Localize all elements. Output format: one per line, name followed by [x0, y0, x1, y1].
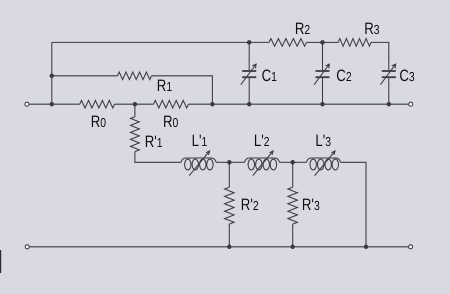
wire: node1 to L'2 [229, 161, 244, 163]
svg-text:L'2: L'2 [254, 132, 270, 150]
svg-text:R'3: R'3 [302, 196, 320, 214]
inductor L'3 (variable) [306, 158, 340, 162]
wire: top between C1 and R2 [249, 41, 269, 43]
resistor R3 [338, 39, 371, 47]
node C2 bottom [320, 102, 325, 107]
wire: R0 to node R'1 [115, 103, 135, 105]
svg-text:C2: C2 [336, 67, 351, 85]
svg-text:R2: R2 [295, 20, 310, 38]
node right corner bottom [364, 245, 369, 250]
wire: left vertical [51, 42, 53, 104]
wire: R3 to top-right corner, down to C3 [371, 42, 389, 58]
capacitor C3 (variable) [388, 57, 390, 70]
wire: R1 row left lead [52, 75, 118, 77]
node R1/left vertical [50, 74, 55, 79]
svg-text:R0: R0 [163, 113, 178, 131]
wire: second R0 to main line right [188, 103, 410, 105]
wire: bottom horizontal [27, 246, 410, 248]
terminal (bottom right) [409, 245, 413, 249]
svg-text:C1: C1 [262, 67, 277, 85]
wire: L'2 to node2 [280, 161, 293, 163]
resistor R'3 [292, 162, 294, 187]
wire: top horizontal [52, 41, 249, 43]
wire: node C2 to R3 [323, 41, 339, 43]
wire: L'3 to right corner down to bottom [341, 162, 366, 247]
wire: R2 to node C2 [307, 41, 323, 43]
wire: node2 to L'3 [293, 161, 307, 163]
capacitor C1 (variable) [248, 42, 250, 70]
node R1 right on main line [210, 102, 215, 107]
node R'1 top [133, 102, 138, 107]
capacitor C2 (variable) [322, 42, 324, 70]
node R'2 bottom [227, 245, 232, 250]
node C1 top [247, 40, 252, 45]
svg-text:R0: R0 [91, 113, 106, 131]
resistor R0 (second) [154, 100, 189, 108]
inductor L'1 (variable) [181, 158, 216, 162]
svg-text:C3: C3 [399, 67, 414, 85]
wire: R'1 bottom to inductor row [135, 152, 181, 163]
wire: input terminal to node [27, 103, 52, 105]
svg-text:R1: R1 [157, 77, 172, 95]
resistor R0 (first) [80, 100, 115, 108]
left-edge dark mark [0, 250, 1, 273]
node R'3 bottom [290, 245, 295, 250]
wire: node to R0 [52, 103, 80, 105]
wire: node R'1 to second R0 [135, 103, 154, 105]
node C1 bottom [247, 102, 252, 107]
svg-text:L'1: L'1 [192, 132, 208, 150]
node C3 bottom [387, 102, 392, 107]
node L'2-L'3 / R'3 top [290, 160, 295, 165]
resistor R1 [118, 72, 152, 80]
resistor R'1 top lead [134, 104, 136, 117]
output terminal (top right) [409, 102, 413, 106]
node L'1-L'2 / R'2 top [227, 160, 232, 165]
resistor R'1 [131, 117, 140, 152]
wire: L'1 to node1 [216, 161, 229, 163]
inductor L'2 (variable) [245, 158, 280, 162]
resistor R2 [269, 39, 307, 47]
resistor R'2 [228, 162, 230, 187]
node C2 top [320, 40, 325, 45]
svg-text:L'3: L'3 [315, 132, 331, 150]
terminal (bottom left) [25, 245, 29, 249]
input terminal (top left) [25, 102, 29, 106]
node left vertical/main line [50, 102, 55, 107]
svg-text:R'2: R'2 [241, 196, 259, 214]
svg-text:R3: R3 [364, 20, 379, 38]
wire: R1 to right corner down to main line [152, 76, 213, 104]
svg-text:R'1: R'1 [145, 133, 163, 151]
